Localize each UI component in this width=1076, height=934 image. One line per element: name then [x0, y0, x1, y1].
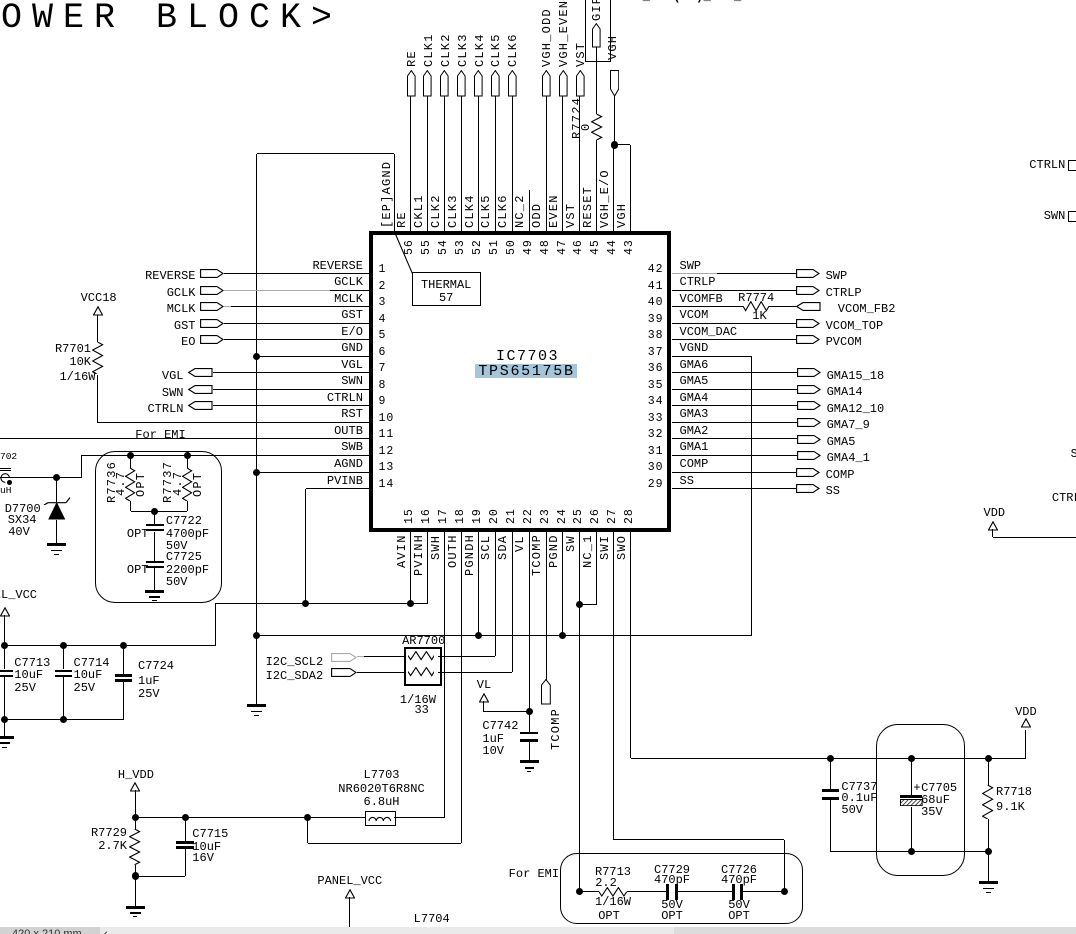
THERMAL pad box pin 57 — [412, 272, 481, 306]
net flag TCOMP (pointing up) — [541, 679, 551, 705]
IC pin name label CLK3 (top) — [447, 194, 459, 228]
wire VGH_EVEN to IC — [562, 96, 563, 231]
net flag GMA15_18 — [797, 368, 821, 377]
capacitor C7729 — [627, 891, 667, 892]
ground below R7718 — [988, 851, 989, 881]
wire TCOMP pin23 down — [546, 532, 547, 680]
wire exposed pad EP to AGND vertical — [394, 154, 395, 232]
capacitor C7713 — [4, 646, 5, 670]
pin number 41 — [648, 281, 664, 293]
pin number 18 — [455, 508, 467, 524]
input flag EO — [181, 336, 195, 348]
pin number 52 — [472, 239, 484, 255]
pin number 43 — [624, 239, 636, 255]
output flag CTRLN — [147, 403, 183, 415]
power symbol PANEL_VCC (cut at left edge) — [0, 589, 37, 601]
capacitor C7726 — [732, 884, 735, 899]
pin flag VST (top) — [576, 70, 585, 97]
IC pin name label SCL (bottom) — [480, 535, 492, 560]
wire VGH junction to pin 44 VGH_E/O — [613, 145, 614, 231]
label SX34 — [8, 514, 37, 526]
wire PGND pin24 down — [562, 532, 563, 636]
pin flag CLK1 (top) — [423, 70, 432, 97]
IC pin name label MCLK (left) — [334, 293, 363, 305]
wire SS pin29 — [672, 488, 796, 489]
resistor R7718 — [988, 758, 989, 785]
wire AR7700 to SCL — [438, 656, 495, 657]
pin number 19 — [472, 508, 484, 524]
net flag COMP — [796, 468, 820, 477]
wire SWI pin27 down — [613, 532, 614, 840]
IC pin name label GCLK (left) — [334, 276, 363, 288]
pin1 chamfer notch — [392, 232, 417, 276]
pin number 9 — [379, 396, 387, 408]
value 2.7K — [98, 840, 127, 852]
capacitor C7705 (polarized) — [911, 758, 912, 795]
pin number 16 — [421, 508, 433, 524]
input flag MCLK — [167, 303, 196, 315]
partial label CTRLN (right edge) — [1029, 159, 1065, 171]
junction C7714 — [60, 642, 67, 649]
pin number 22 — [523, 508, 535, 524]
value 10K — [69, 356, 91, 368]
wire REVERSE to pin1 — [224, 273, 369, 274]
input flag GCLK — [167, 287, 196, 299]
wire CTRLN pin9 — [213, 405, 369, 406]
IC pin name label VGH_E/O (top) — [599, 169, 611, 228]
pin number 26 — [590, 508, 602, 524]
pin number 10 — [379, 413, 395, 425]
resistor R7701 — [92, 342, 104, 374]
value 1K — [752, 310, 766, 322]
OPT R7736 — [135, 472, 147, 497]
value 1/16W R7713 — [595, 896, 631, 908]
resistor R7736 — [130, 456, 131, 468]
IC pin name label NC_1 (bottom) — [582, 535, 594, 569]
IC pin name label E/O (left) — [341, 326, 363, 338]
pin number 38 — [648, 330, 664, 342]
pin number 44 — [607, 239, 619, 255]
status bar size text 420 x 210 mm (clipped) — [12, 929, 82, 934]
label D7700 — [5, 503, 41, 515]
IC pin name label SW (bottom) — [565, 535, 577, 552]
label L7704 — [414, 913, 450, 925]
wire OUTH pin18 down — [461, 532, 462, 844]
pin number 53 — [455, 239, 467, 255]
IC pin name label RST (left) — [341, 408, 363, 420]
pin number 1 — [379, 264, 387, 276]
power symbol VCC18 — [81, 292, 117, 304]
power symbol VL — [477, 679, 491, 691]
IC pin name label OUTH (bottom) — [447, 535, 459, 569]
IC pin name label GMA5 (right) — [680, 375, 709, 387]
net flag VCOM_FB2 (reversed) — [796, 302, 821, 311]
wire R7736/R7737 bottoms join — [130, 501, 131, 511]
pin number 11 — [379, 429, 395, 441]
junction GND — [253, 353, 260, 360]
IC pin name label SWO (bottom) — [616, 535, 628, 560]
pin number 6 — [379, 347, 387, 359]
wire CLK3 to IC pin 53 — [461, 96, 462, 231]
IC pin name label COMP (right) — [680, 458, 709, 470]
junction PGNDH — [475, 632, 482, 639]
IC pin name label GMA3 (right) — [680, 408, 709, 420]
junction caps top — [151, 508, 158, 515]
pin number 31 — [648, 446, 664, 458]
IC pin name label VCOMFB (right) — [680, 293, 723, 305]
junction D7700 — [53, 474, 60, 481]
IC pin name label CLK4 (top) — [464, 194, 476, 228]
pin number 55 — [421, 239, 433, 255]
wire SCL pin20 down — [495, 532, 496, 657]
IC pin name label CKL1 (top) — [413, 194, 425, 228]
status bar strip — [0, 927, 1076, 934]
junction R7718 top — [985, 755, 992, 762]
pin number 48 — [540, 239, 552, 255]
resistor R7774 — [743, 301, 769, 312]
inductor L7703 — [363, 769, 399, 781]
H_VDD rail — [135, 817, 365, 818]
IC pin name label SS (right) — [680, 475, 694, 487]
pin number 7 — [379, 363, 387, 375]
GIP box — [585, 0, 611, 62]
pin number 5 — [379, 330, 387, 342]
capacitor C7714 — [63, 646, 64, 670]
wire OUTH loop under — [307, 818, 308, 844]
pin number 15 — [404, 508, 416, 524]
wire PGNDH pin19 down — [478, 532, 479, 636]
pin number 8 — [379, 380, 387, 392]
pin flag CLK4 (top) — [474, 70, 483, 97]
junction EMI filter right — [781, 888, 788, 895]
wire VGL pin7 — [213, 372, 369, 373]
junction H_VDD rail left — [132, 814, 139, 821]
partial label CTR (right edge) — [1052, 492, 1076, 504]
IC pin name label SDA (bottom) — [497, 535, 509, 560]
IC pin name label VGH (top) — [616, 203, 628, 228]
VDD network bottom rail — [830, 851, 988, 852]
value 4.7 R7736 — [115, 471, 127, 496]
junction C7737 — [827, 755, 834, 762]
value 2.2 — [595, 877, 617, 889]
exposed pad net label [EP]AGND — [381, 161, 393, 228]
wire L7703 to SWH — [394, 817, 445, 818]
IC pin name label GMA2 (right) — [680, 425, 709, 437]
IC pin name label REVERSE (left) — [312, 260, 362, 272]
pin number 33 — [648, 413, 664, 425]
junction C7705 top — [908, 755, 915, 762]
wire EO to pin5 — [224, 339, 369, 340]
wire L7702 output — [0, 477, 81, 478]
power symbol VDD (mid right) — [983, 507, 1005, 519]
IC pin name label TCOMP (bottom) — [531, 534, 543, 576]
IC pin name label GMA4 (right) — [680, 392, 709, 404]
value 33 AR7700 — [414, 704, 428, 716]
power symbol VDD (top right) — [1015, 706, 1037, 718]
junction PVINB rail — [302, 600, 309, 607]
pin flag CLK3 (top) — [457, 70, 466, 97]
IC pin name label CLK5 (top) — [480, 194, 492, 228]
value 1/16W AR7700 — [400, 694, 436, 706]
group box around C7705 — [876, 724, 965, 875]
IC pin name label CTRLN (left) — [327, 392, 363, 404]
pin number 56 — [404, 239, 416, 255]
pin flag GIP (inside box) — [592, 23, 601, 48]
wire RST pin10 — [98, 422, 369, 423]
wire SWN pin8 — [213, 389, 369, 390]
IC pin name label VST (top) — [565, 203, 577, 228]
resistor R7724 — [591, 114, 603, 140]
wire SWP pin42 (grey then black) — [672, 273, 718, 274]
IC pin name label GMA6 (right) — [680, 359, 709, 371]
wire GMA pin34 — [672, 405, 798, 406]
wire VST to IC — [579, 96, 580, 231]
junction R7736 top — [127, 452, 134, 459]
junction OUTH loop — [304, 814, 311, 821]
IC pin name label RE (top) — [396, 211, 408, 228]
IC pin name label CLK6 (top) — [497, 194, 509, 228]
pin number 23 — [540, 508, 552, 524]
wire VCOM pin39 — [672, 323, 796, 324]
title <LCD POWER BLOCK> (partially cut) — [0, 1, 342, 36]
IC pin name label GST (left) — [341, 309, 363, 321]
IC pin name label SWI (bottom) — [599, 535, 611, 560]
highlight box on part number — [475, 364, 578, 378]
value 9.1K — [996, 801, 1025, 813]
wire GND pin6 to AGND vertical — [257, 356, 370, 357]
wire NC_1 pin26 — [596, 532, 597, 605]
junction VL — [526, 708, 533, 715]
IC pin name label NC_2 (top) — [514, 194, 526, 228]
wire AR7700 to SDA — [438, 672, 512, 673]
pin number 28 — [624, 508, 636, 524]
pin number 42 — [648, 264, 664, 276]
IC pin name label GMA1 (right) — [680, 441, 709, 453]
op-amp/PMIC IC7703 body — [369, 231, 671, 532]
junction R7737 top — [184, 452, 191, 459]
wire VCOM_DAC pin38 — [672, 339, 796, 340]
IC pin name label OUTB (left) — [334, 425, 363, 437]
IC pin name label PVINB (left) — [327, 475, 363, 487]
pin number 40 — [648, 297, 664, 309]
IC reference IC7703 — [496, 349, 559, 364]
pin number 32 — [648, 429, 664, 441]
capacitor C7725 — [154, 532, 155, 562]
junction PGND — [559, 632, 566, 639]
pin number 12 — [379, 446, 395, 458]
IC pin name label VCOM_DAC (right) — [680, 326, 738, 338]
ground below R7729 — [135, 876, 136, 906]
ground below C7713 — [4, 720, 5, 736]
IC pin name label CLK2 (top) — [430, 194, 442, 228]
power symbol H_VDD — [118, 769, 154, 781]
ground rail y=635 — [257, 635, 752, 636]
wire R7724 to IC pin 45 RESET — [596, 140, 597, 231]
stub wire NC_2 pin 49 — [529, 190, 530, 231]
net flag CTRLP — [796, 286, 820, 295]
capacitor C7722 — [154, 511, 155, 524]
IC pin name label CTRLP (right) — [680, 276, 716, 288]
input flag REVERSE — [145, 270, 195, 282]
IC pin name label SWB (left) — [341, 441, 363, 453]
ground below C7742 — [520, 760, 539, 763]
wire GIP to R7724 — [596, 47, 597, 115]
wire CLK2 to IC pin 54 — [444, 96, 445, 231]
junction SW/NC_1 — [576, 601, 583, 608]
pin number 45 — [590, 239, 602, 255]
plus sign C7705 — [913, 782, 920, 794]
wire VCOMFB pin40 — [672, 306, 744, 307]
IC pin name label AGND (left) — [334, 458, 363, 470]
wire I2C_SCL2 to AR7700 — [357, 656, 364, 657]
wire GMA pin31 — [672, 455, 798, 456]
input flag GST — [174, 320, 196, 332]
IC pin name label PVINH (bottom) — [413, 534, 425, 576]
pin number 14 — [379, 479, 395, 491]
net flag SWP — [796, 269, 820, 278]
net flag GMA12_10 — [797, 401, 821, 410]
IC pin name label VGND (right) — [680, 342, 709, 354]
IC pin name label VGL (left) — [341, 359, 363, 371]
pin number 34 — [648, 396, 664, 408]
IC pin name label VL (bottom) — [514, 535, 526, 552]
IC pin name label VCOM (right) — [680, 309, 709, 321]
IC pin name label SWN (left) — [341, 375, 363, 387]
net flag SS — [796, 484, 820, 493]
wire OUTB pin11 — [0, 438, 369, 439]
output flag VGL — [162, 370, 184, 382]
net flag GMA7_9 — [797, 418, 821, 427]
cut-off net name text at top edge — [620, 0, 764, 3]
pin number 17 — [438, 508, 450, 524]
pin number 24 — [557, 508, 569, 524]
junction ground rail at AGND vertical — [253, 632, 260, 639]
IC part number TPS65175B — [478, 364, 574, 379]
wire I2C_SDA2 to AR7700 — [357, 672, 404, 673]
pin number 54 — [438, 239, 450, 255]
pin number 47 — [557, 239, 569, 255]
net flag PVCOM — [796, 335, 820, 344]
IC pin name label PGND (bottom) — [548, 535, 560, 569]
wire GST to pin4 — [224, 323, 369, 324]
OPT R7737 — [192, 472, 204, 497]
IC pin name label EVEN (top) — [548, 194, 560, 228]
net flag GMA14 — [797, 385, 821, 394]
junction C7713 — [1, 642, 8, 649]
pin number 29 — [648, 479, 664, 491]
label 40V — [8, 526, 30, 538]
pin number 36 — [648, 363, 664, 375]
resistor R7713 — [580, 891, 599, 892]
wire COMP pin30 — [672, 472, 796, 473]
capacitor C7715 — [185, 818, 186, 842]
wire AGND pin13 — [257, 472, 370, 473]
EMI filter group box — [560, 853, 803, 925]
ground below D7700 — [47, 543, 66, 546]
capacitor C7742 — [520, 732, 538, 735]
net flag I2C_SCL2 — [266, 656, 324, 668]
junction AGND — [253, 469, 260, 476]
pin number 2 — [379, 281, 387, 293]
output flag SWN — [162, 387, 184, 399]
OPT R7713 — [598, 910, 620, 922]
ground symbol below AGND vertical — [247, 704, 266, 707]
value 4.7 R7737 — [172, 471, 184, 496]
wire GMA pin32 — [672, 438, 798, 439]
wire SWO pin28 down to VDD rail — [630, 532, 631, 759]
wire VGH flag down to junction — [614, 96, 615, 145]
wire GMA pin33 — [672, 422, 798, 423]
net flag GMA5 — [797, 435, 821, 444]
pin number 27 — [607, 508, 619, 524]
value 1/16W — [59, 371, 95, 383]
IC pin name label RESET (top) — [582, 186, 594, 228]
wire PVINB pin14 — [306, 488, 370, 489]
net flag GMA4_1 — [797, 451, 821, 460]
wire RE to IC pin 56 — [410, 96, 411, 231]
pin flag VGH (top, pointing down) — [610, 70, 619, 97]
pin flag CLK2 (top) — [440, 70, 449, 97]
inductor L7702 (cut at edge) — [0, 452, 17, 462]
pin flag RE (top) — [407, 70, 416, 97]
EMI group box (R7736/R7737) — [95, 451, 222, 603]
PANEL_VCC rail to PVIN pins — [216, 603, 428, 604]
IC pin name label AVIN (bottom) — [396, 535, 408, 569]
diode D7700 SX34 — [56, 478, 57, 502]
pin number 37 — [648, 347, 664, 359]
junction R7729 bottom — [132, 872, 139, 879]
pin number 25 — [573, 508, 585, 524]
net flag I2C_SDA2 — [266, 670, 324, 682]
status bar small glyph — [104, 929, 108, 934]
power symbol PANEL_VCC (bottom) — [317, 875, 382, 887]
IC pin name label GND (left) — [341, 342, 363, 354]
pin flag VGH_EVEN (top) — [559, 70, 568, 97]
value 0 of R7724 — [580, 123, 592, 131]
junction SW to EMI filter — [576, 888, 583, 895]
IC pin name label SWH (bottom) — [430, 535, 442, 560]
resistor R7737 — [187, 456, 188, 468]
junction dot VGH — [611, 141, 618, 148]
wire R7774 to flag — [769, 306, 796, 307]
partial label S (right edge) — [1071, 448, 1076, 460]
ground below C7725 — [154, 568, 155, 589]
wire PVINH pin16 down — [427, 532, 428, 604]
wire GCLK to pin2 (grey) — [224, 290, 330, 291]
wire CLK6 to IC pin 50 — [512, 96, 513, 231]
pin flag VGH_ODD (top) — [542, 70, 551, 97]
text For EMI (bottom) — [509, 868, 559, 880]
pin flag CLK5 (top) — [491, 70, 500, 97]
wire SDA pin21 down — [512, 532, 513, 673]
wire VGND pin37 — [672, 356, 752, 357]
wire SW pin25 down — [579, 532, 580, 892]
pin number 21 — [506, 508, 518, 524]
junction AVIN — [407, 600, 414, 607]
capacitor C7724 — [123, 646, 124, 674]
partial label SWN (right edge) — [1044, 210, 1066, 222]
pin number 46 — [573, 239, 585, 255]
wire VL pin22 down — [529, 532, 530, 732]
pin number 50 — [506, 239, 518, 255]
bottom rail of caps — [5, 719, 124, 720]
wire GMA pin36 — [672, 372, 798, 373]
resistor R7729 — [129, 829, 141, 865]
pin number 35 — [648, 380, 664, 392]
pin number 49 — [523, 239, 535, 255]
pin number 4 — [379, 314, 387, 326]
wire CTRLP pin41 — [672, 290, 796, 291]
